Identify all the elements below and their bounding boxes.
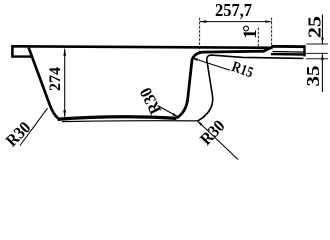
- extension line bar top right: [306, 43, 328, 45]
- leader line R15 with arrow: [192, 58, 231, 71]
- right bar underside inner line: [273, 51, 304, 54]
- floor top line: [58, 117, 177, 120]
- floor bottom thin line: [62, 120, 198, 123]
- right bar bottom line: [271, 53, 304, 56]
- leader line R30 bottom left: [20, 108, 48, 145]
- extension line rim underside right: [306, 58, 328, 60]
- leader line R30 bottom right: [197, 121, 238, 160]
- dimension 35 line with arrow: [321, 54, 324, 92]
- extension line bar bottom right: [306, 52, 328, 54]
- right bar top line: [272, 45, 306, 48]
- left wall with R30 bottom corner: [29, 48, 59, 119]
- right bar end cap: [303, 45, 305, 56]
- dimension 25 line with arrows: [321, 15, 324, 45]
- dimension 274 line with arrows: [63, 49, 66, 118]
- svg-text:274: 274: [47, 67, 64, 91]
- right wall outer thin line: [198, 55, 304, 121]
- rim top line: [12, 46, 273, 48]
- extension line right of 257,7: [271, 18, 273, 45]
- extension line left of 257,7: [199, 18, 201, 54]
- right wall inner line with R15 top corner and R30 bottom corner: [176, 51, 263, 118]
- svg-text:25: 25: [305, 16, 325, 38]
- lip bottom line: [12, 55, 32, 57]
- svg-text:35: 35: [303, 66, 323, 87]
- lip left edge: [11, 45, 14, 57]
- extension line for 1 degree: [257, 28, 259, 47]
- leader line R30 middle: [158, 106, 179, 118]
- svg-text:1°: 1°: [240, 25, 261, 39]
- rim step line B to bar ramp: [263, 47, 273, 52]
- dimension 257,7 line with arrows: [200, 20, 272, 23]
- svg-text:257,7: 257,7: [215, 0, 252, 20]
